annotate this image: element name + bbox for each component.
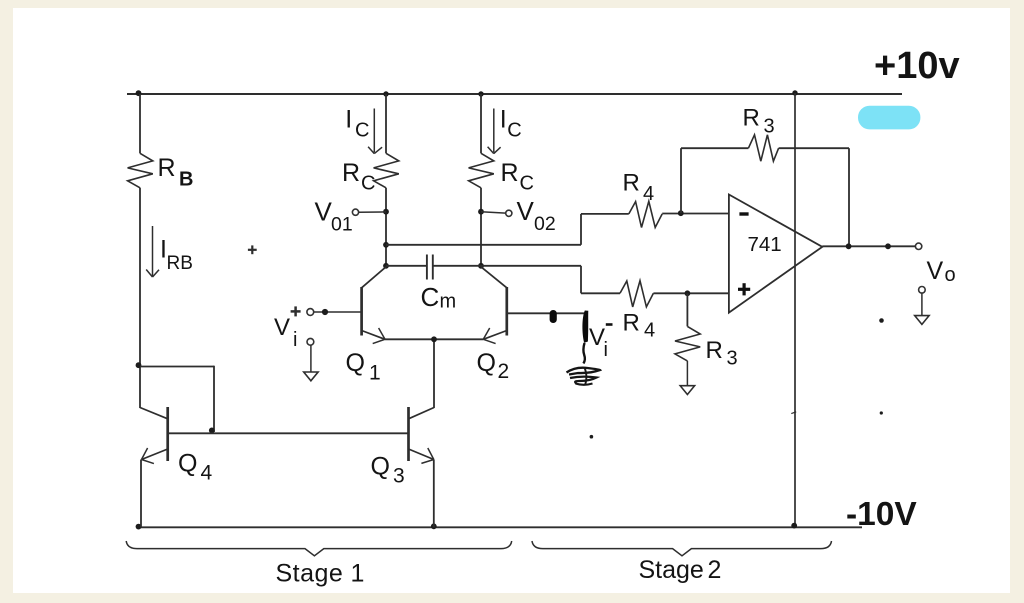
transistor Q1 collector [362, 267, 386, 288]
svg-text:Q: Q [371, 453, 390, 481]
op-amp plus pin mark [738, 288, 750, 291]
wire V01 stub [359, 211, 386, 213]
resistor R4 upper [629, 201, 662, 227]
svg-text:R: R [158, 154, 176, 182]
wire Vi+ lower to ground [310, 345, 312, 372]
transistor Q3 base bar [407, 407, 410, 461]
svg-text:V: V [315, 197, 333, 227]
resistor R3 ground leg [675, 326, 700, 361]
node RB bottom junction [136, 362, 142, 368]
svg-text:o: o [945, 264, 956, 286]
transistor Q1 base bar [360, 287, 363, 336]
svg-text:Q: Q [346, 349, 365, 377]
wire R4 lower to plus input [653, 292, 729, 294]
svg-text:Q: Q [477, 349, 496, 377]
transistor Q4 collector [140, 408, 168, 419]
wire to R4 upper [581, 213, 629, 215]
svg-text:i: i [293, 329, 297, 351]
annotation pen stroke Vi- wire [582, 311, 588, 343]
op-amp minus pin mark [739, 212, 748, 215]
svg-text:+10v: +10v [874, 45, 960, 87]
ground Vi+ [304, 372, 318, 381]
node plus input junction [685, 290, 691, 296]
wire bottom -10V rail [138, 526, 863, 528]
node Vi+ lower terminal [307, 338, 314, 345]
wire Vi+ to Q1 base [314, 311, 362, 313]
node Cm right junction [478, 263, 484, 269]
node Vo terminal [915, 243, 921, 249]
node bottom rail / Q3 emitter [431, 523, 437, 529]
node Cm left junction [383, 263, 389, 269]
svg-text:R: R [342, 159, 360, 187]
stray dot near output [879, 318, 884, 323]
brace Stage 1 [126, 541, 512, 556]
wire R3 to ground [686, 361, 688, 386]
wire Cm right [433, 265, 481, 267]
svg-text:4: 4 [644, 320, 655, 342]
wire V02 signal horizontal [481, 265, 581, 267]
transistor Q2 base bar [505, 287, 508, 336]
wire V01 signal horizontal [386, 244, 581, 246]
transistor Q1 emitter [362, 331, 385, 340]
op-amp U1 741 [729, 195, 822, 313]
svg-text:RB: RB [167, 253, 193, 274]
svg-text:1: 1 [351, 560, 365, 588]
svg-text:C: C [520, 173, 534, 195]
svg-text:C: C [355, 119, 369, 141]
node Vi+ terminal [307, 309, 314, 316]
wire top +10V rail [127, 93, 902, 95]
ground Vo [915, 316, 929, 325]
wire Vo to ground [921, 293, 923, 315]
wire emitter rail [385, 338, 483, 340]
resistor R3 feedback [748, 135, 778, 161]
transistor Q3 collector [409, 408, 435, 419]
node V02 junction [478, 209, 484, 215]
resistor R4 lower [620, 281, 653, 307]
svg-text:m: m [440, 291, 457, 313]
stray tick on right rail [791, 412, 796, 414]
annotation pen tick on base wire [550, 310, 557, 323]
node output junction 2 [885, 243, 891, 249]
svg-text:B: B [179, 169, 193, 191]
wire RC2 top [480, 94, 482, 153]
current arrow IC2 [493, 109, 495, 153]
wire V02 signal step down [580, 266, 582, 294]
resistor RB [128, 153, 153, 188]
node output feedback junction [846, 243, 852, 249]
svg-text:02: 02 [534, 213, 556, 235]
svg-text:R: R [706, 337, 723, 364]
transistor Q2 collector [481, 267, 507, 288]
wire V02 stub [481, 212, 506, 213]
wire to R4 lower [581, 292, 620, 294]
wire Q2 base [507, 312, 587, 314]
svg-text:741: 741 [748, 233, 782, 256]
wire Cm left [386, 265, 427, 267]
stray dot middle [590, 435, 594, 439]
transistor Q3 emitter [409, 449, 434, 460]
node emitter rail junction [431, 336, 437, 342]
wire V01 signal step up [580, 214, 582, 245]
wire Q3 emitter to bottom rail [433, 460, 435, 528]
svg-text:C: C [507, 119, 521, 141]
svg-text:3: 3 [727, 348, 738, 370]
wire feedback up [680, 148, 682, 213]
annotation plus sign [248, 249, 257, 251]
wire R4 upper to minus input [662, 213, 729, 215]
svg-text:Stage: Stage [276, 560, 344, 588]
wire Q4-Q3 base wire [168, 432, 409, 434]
svg-text:C: C [421, 282, 440, 312]
svg-text:01: 01 [331, 214, 353, 236]
svg-text:4: 4 [643, 183, 654, 205]
node bottom rail / down-rail [791, 523, 797, 529]
current arrow IRB [152, 226, 154, 277]
wire Q1 collector column [385, 188, 387, 267]
transistor Q4 emitter [142, 449, 168, 460]
svg-text:V: V [517, 196, 535, 226]
svg-text:Stage: Stage [639, 556, 704, 584]
brace Stage 2 [532, 541, 832, 556]
capacitor Cm [426, 255, 428, 280]
svg-text:2: 2 [498, 360, 510, 383]
svg-text:R: R [623, 170, 640, 197]
node Vi+ wire dot [322, 309, 328, 315]
node top rail / +10V down-rail junction [792, 90, 797, 95]
wire +10V to -10V vertical rail [794, 93, 796, 527]
svg-text:I: I [500, 105, 507, 133]
wire RC1 top [385, 94, 387, 153]
svg-text:Q: Q [178, 450, 197, 478]
wire RB bottom to mirror base (horiz) [140, 366, 214, 368]
svg-text:1: 1 [369, 362, 381, 385]
svg-text:2: 2 [708, 556, 722, 584]
svg-text:3: 3 [393, 465, 405, 488]
wire Q4 emitter to bottom rail [140, 460, 142, 528]
node top rail / RC1 junction [383, 91, 388, 96]
svg-text:3: 3 [764, 116, 775, 138]
transistor Q2 emitter [483, 331, 507, 340]
svg-text:V: V [274, 314, 290, 341]
wire left rail upper [139, 94, 141, 153]
node Q1 wire-to-R4 junction [383, 242, 389, 248]
svg-text:R: R [501, 159, 519, 187]
stray dot right lower [880, 411, 883, 414]
node V02 terminal [506, 210, 512, 216]
ground R3 [680, 386, 694, 395]
node top rail / RC2 junction [478, 91, 483, 96]
wire feedback top left [681, 147, 748, 149]
node top rail / RB junction [136, 90, 142, 96]
svg-text:R: R [743, 105, 760, 132]
node bottom rail left [136, 524, 142, 530]
resistor RC2 [469, 153, 494, 188]
svg-text:4: 4 [201, 462, 213, 485]
svg-text:R: R [623, 310, 640, 337]
highlight cyan marker [858, 106, 920, 130]
resistor RC1 [374, 153, 399, 188]
svg-text:C: C [361, 173, 375, 195]
node base wire junction [209, 428, 215, 434]
node V01 junction [383, 209, 389, 215]
wire mirror base drop (vert) [213, 366, 215, 432]
svg-text:i: i [604, 339, 608, 361]
wire Q3 collector to diff pair emitters [433, 339, 435, 408]
node minus input junction [678, 210, 684, 216]
svg-text:I: I [345, 105, 352, 133]
wire plus node down [686, 293, 688, 326]
transistor Q4 base bar [166, 407, 169, 461]
wire left rail lower [139, 188, 141, 408]
svg-text:V: V [927, 257, 944, 285]
node Vo lower terminal [919, 287, 926, 294]
current arrow IC1 [373, 109, 375, 153]
wire feedback down to output [848, 148, 850, 246]
wire Q2 collector column [480, 188, 482, 267]
wire op-amp output [822, 245, 915, 247]
annotation scribbled ground [567, 368, 601, 375]
wire feedback top right [779, 147, 849, 149]
node V01 terminal [352, 209, 358, 215]
svg-text:-10V: -10V [846, 496, 917, 533]
